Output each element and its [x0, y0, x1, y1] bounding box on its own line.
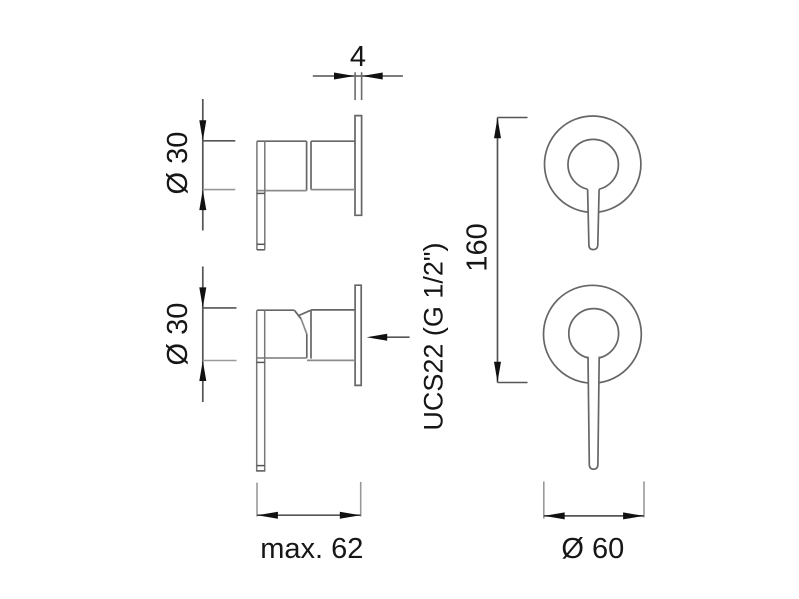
diameter 60 dimension line	[544, 515, 644, 517]
svg-text:Ø 60: Ø 60	[561, 533, 624, 565]
svg-text:max. 62: max. 62	[260, 533, 363, 565]
dimension 160 bottom arrowhead	[494, 362, 501, 382]
diameter 60 extension line left	[543, 482, 545, 519]
upper diameter 30 top arrowhead	[199, 120, 206, 140]
upper side view: knob	[257, 141, 307, 190]
lower front view: wall plate circle	[544, 285, 642, 383]
dimension 160 top arrowhead	[494, 118, 501, 138]
upper diameter 30 tick bottom	[203, 189, 236, 191]
svg-text:Ø 30: Ø 30	[162, 303, 194, 366]
UCS22 arrowhead	[367, 334, 388, 341]
upper side view: wall plate	[355, 116, 362, 216]
upper diameter 30 tick top	[203, 140, 236, 142]
dimension 4 left arrowhead	[334, 73, 355, 80]
upper front view: knob circle	[568, 139, 618, 189]
dimension 4 extension line left	[354, 72, 356, 100]
lower side view: wall plate	[355, 285, 361, 385]
svg-text:160: 160	[462, 223, 494, 271]
lower diameter 30 tick top	[203, 307, 237, 309]
max 62 right arrowhead	[340, 512, 361, 519]
dimension 160 line	[497, 118, 499, 383]
UCS22 arrow line	[384, 336, 410, 338]
max 62 extension line left	[256, 483, 258, 517]
lower side view: lever strip	[257, 310, 265, 471]
upper side view: body cylinder	[311, 141, 355, 189]
diameter 60 right arrowhead	[623, 512, 644, 519]
upper front view: lever stem	[588, 188, 600, 250]
dimension 160 bottom tick	[498, 382, 528, 384]
svg-text:4: 4	[350, 41, 366, 73]
lower diameter 30 tick bottom	[203, 360, 237, 362]
lower side view: knob tilted	[257, 310, 311, 358]
upper front view: wall plate circle	[545, 116, 641, 212]
svg-text:UCS22 (G 1/2"): UCS22 (G 1/2")	[418, 243, 448, 431]
lower diameter 30 top arrowhead	[199, 287, 206, 307]
max 62 extension line right	[360, 482, 362, 517]
dimension 4 line	[313, 75, 403, 77]
max 62 left arrowhead	[257, 512, 278, 519]
lower diameter 30 dimension line	[202, 267, 204, 403]
max 62 dimension line	[257, 514, 361, 516]
upper side view: lever strip	[257, 141, 265, 250]
lower side view: body cylinder	[307, 310, 355, 361]
dimension 160 top tick	[498, 117, 528, 119]
lower diameter 30 bottom arrowhead	[199, 361, 206, 381]
dimension 4 right arrowhead	[362, 73, 383, 80]
svg-text:Ø 30: Ø 30	[162, 132, 194, 195]
upper diameter 30 bottom arrowhead	[199, 190, 206, 210]
diameter 60 extension line right	[643, 481, 645, 517]
upper diameter 30 dimension line	[202, 99, 204, 231]
lower front view: knob circle	[569, 309, 619, 359]
dimension 4 extension line right	[361, 72, 363, 100]
lower front view: lever stem	[588, 355, 599, 469]
diameter 60 left arrowhead	[544, 512, 565, 519]
